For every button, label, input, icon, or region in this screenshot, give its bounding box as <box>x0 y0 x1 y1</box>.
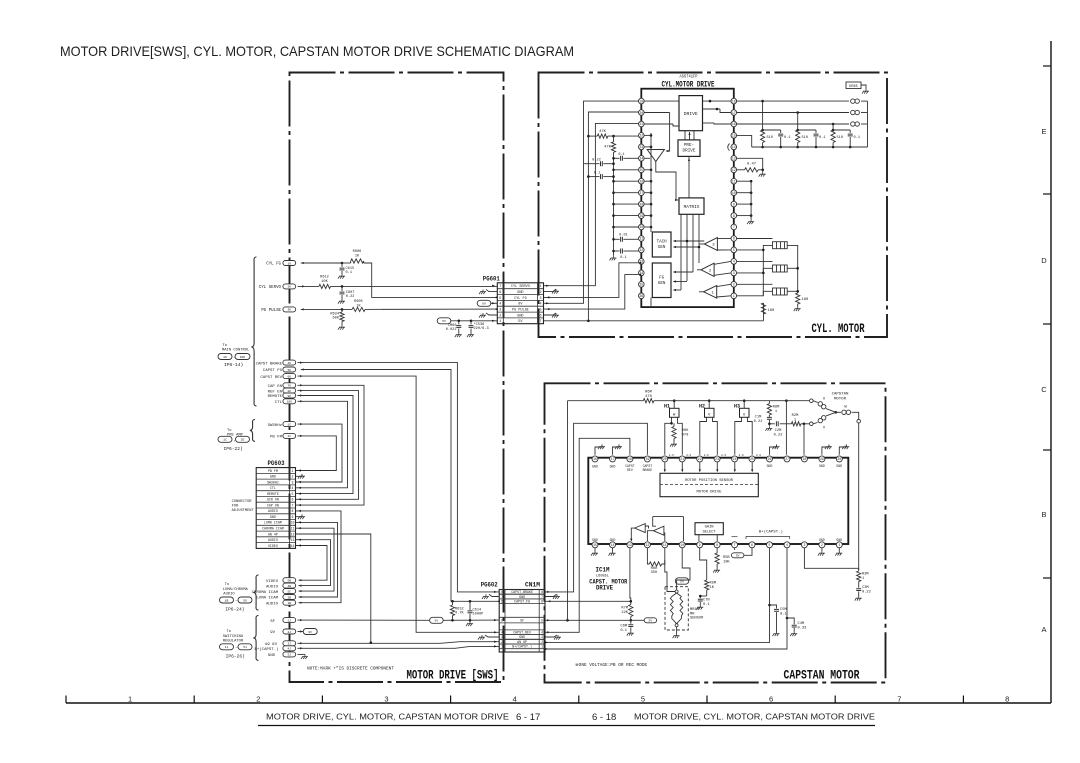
grounds below pins 15,14 <box>591 538 615 556</box>
svg-text:12: 12 <box>291 532 295 536</box>
IC601 right pins 18-1 <box>731 98 737 298</box>
brace main control group <box>251 257 256 406</box>
svg-text:MOTOR DRIVE [SWS]: MOTOR DRIVE [SWS] <box>407 668 499 683</box>
block TACH GEN <box>652 232 671 257</box>
svg-text:PG PULSE: PG PULSE <box>261 309 281 313</box>
svg-text:LUMA ICAM: LUMA ICAM <box>256 597 278 601</box>
svg-text:AS6741FP: AS6741FP <box>680 76 698 80</box>
svg-text:180: 180 <box>802 298 810 302</box>
svg-text:28: 28 <box>802 457 806 461</box>
node AUDIO (1B) <box>266 600 296 606</box>
IC1M top pins 16-30 <box>592 456 842 462</box>
svg-text:AUDIO: AUDIO <box>266 602 279 606</box>
svg-text:0.1: 0.1 <box>703 603 710 607</box>
svg-text:4: 4 <box>733 260 735 264</box>
resistor R5M 1K <box>705 578 717 596</box>
svg-text:CTL: CTL <box>270 486 276 490</box>
zone letters E D C B A <box>1041 127 1047 634</box>
ground CN1M-7 right <box>545 594 560 599</box>
svg-text:GND: GND <box>836 464 842 468</box>
node SF (1J) <box>270 618 296 624</box>
ground PG601 pin6 left <box>479 313 497 318</box>
svg-text:1C: 1C <box>223 438 227 442</box>
wire motor W terminal down to R3M <box>858 423 860 570</box>
node 9V (2J) <box>270 629 296 635</box>
svg-text:0.1: 0.1 <box>618 153 624 157</box>
wire motor node to pin 27 <box>785 401 787 455</box>
wire PG PULSE net with R605 <box>301 300 498 312</box>
label To MAIN CONTROL <box>218 344 250 368</box>
svg-text:2: 2 <box>292 475 294 479</box>
svg-text:GND: GND <box>270 475 276 479</box>
op-amp pair in capstan IC <box>630 517 683 542</box>
svg-text:SF: SF <box>520 618 524 622</box>
node CYL SERVO (2K) <box>259 284 296 290</box>
svg-text:10: 10 <box>732 191 736 195</box>
block DRIVE <box>679 96 703 131</box>
svg-text:2: 2 <box>733 283 735 287</box>
ruler numbers 1-8 <box>128 695 1009 704</box>
svg-text:7: 7 <box>541 595 543 599</box>
svg-text:0.1: 0.1 <box>819 136 825 140</box>
svg-text:28: 28 <box>639 202 643 206</box>
ground above pin 29 <box>822 445 832 455</box>
node B+CAPST (4J) <box>254 646 295 652</box>
capacitor C1M 0.22 <box>754 415 773 431</box>
svg-text:6: 6 <box>501 600 503 604</box>
svg-text:30: 30 <box>837 457 841 461</box>
svg-text:BRAKE: BRAKE <box>643 468 653 472</box>
CYL. MOTOR DRIVE board outline <box>539 73 888 338</box>
svg-text:MOTOR DRIVE, CYL. MOTOR, CAPST: MOTOR DRIVE, CYL. MOTOR, CAPSTAN MOTOR D… <box>634 712 875 722</box>
svg-text:GND: GND <box>592 538 598 542</box>
svg-text:GND: GND <box>592 465 598 469</box>
svg-text:SWITCHING: SWITCHING <box>223 635 244 639</box>
resistor R6H 470 at H1 <box>670 423 688 446</box>
capacitor 0.1 at pin24 <box>612 153 638 161</box>
svg-text:11: 11 <box>291 527 295 531</box>
wire 5V rail from PG601 pin7 along bottom <box>544 320 764 323</box>
9V supply oval at PG601 <box>477 300 497 306</box>
wire LUMA ICAM to PG603-10 <box>296 521 338 598</box>
svg-text:5K: 5K <box>287 369 291 372</box>
resistor 47K vertical in bias bus <box>604 142 615 153</box>
svg-text:CAPST REV: CAPST REV <box>260 376 282 380</box>
svg-text:7: 7 <box>897 695 901 704</box>
capacitor 0.22 <box>584 159 614 167</box>
svg-text:2: 2 <box>256 695 260 704</box>
svg-text:8: 8 <box>716 543 718 547</box>
svg-text:0.01: 0.01 <box>619 234 628 238</box>
capacitor C7N 0.1 <box>696 595 710 610</box>
svg-text:1: 1 <box>501 645 503 649</box>
svg-text:R606: R606 <box>353 250 362 254</box>
svg-text:MOTOR: MOTOR <box>834 397 847 401</box>
svg-text:GND: GND <box>836 538 842 542</box>
wire CTL to PG603-4 <box>296 400 348 489</box>
wire pin 3 to R3M chain <box>804 548 858 568</box>
MR sensor dashed box <box>665 587 688 630</box>
FG coil head no2 (pins 4,3) <box>737 261 799 273</box>
svg-text:R612: R612 <box>320 276 329 280</box>
svg-text:IP6-26): IP6-26) <box>226 654 245 660</box>
node CAPST REV (6K) <box>260 374 295 380</box>
svg-text:PB FM: PB FM <box>270 436 283 440</box>
svg-text:B+(CAPST.): B+(CAPST.) <box>254 647 278 652</box>
wire CYL SERVO net with R612 <box>298 276 498 289</box>
svg-text:510: 510 <box>837 136 843 140</box>
snubber R 510 C 0.1 no3 <box>831 123 860 147</box>
footer page text right <box>592 712 875 724</box>
svg-text:GEN: GEN <box>658 282 666 286</box>
svg-text:0.22: 0.22 <box>862 590 871 594</box>
svg-text:DRIVE: DRIVE <box>684 111 698 117</box>
ground above pin 26 <box>770 445 780 455</box>
svg-text:9V: 9V <box>270 631 275 635</box>
resistor R6H 35K at pin 12 <box>647 548 664 575</box>
svg-text:24: 24 <box>639 157 643 161</box>
ground left bias bus <box>610 256 617 261</box>
svg-text:9V: 9V <box>308 630 312 634</box>
footer page text left <box>266 712 540 724</box>
svg-text:17: 17 <box>732 111 736 115</box>
internal bias bus in IC601 <box>644 133 652 306</box>
svg-text:27: 27 <box>639 191 643 195</box>
wire CAPST REV bundle <box>298 375 500 633</box>
svg-text:VIDEO: VIDEO <box>268 544 278 548</box>
svg-text:26: 26 <box>639 179 643 183</box>
svg-text:8: 8 <box>541 590 543 594</box>
svg-text:18: 18 <box>628 457 632 461</box>
DR65 component box <box>846 82 869 94</box>
svg-text:5C: 5C <box>287 590 291 593</box>
node LUMA ICAM (2B) <box>256 595 295 601</box>
svg-text:B+(CAPST.): B+(CAPST.) <box>759 529 783 534</box>
ground PG602 pin7 left <box>482 594 499 599</box>
svg-text:PRE-: PRE- <box>684 143 694 148</box>
IC1M label <box>589 567 627 592</box>
label CONNECTOR FOR ADJUSTMENT <box>232 500 255 513</box>
svg-text:11: 11 <box>732 179 736 183</box>
node CAPST BRAKE (4K) <box>256 360 296 366</box>
grounds below pins 2,1 <box>818 538 842 556</box>
svg-text:15: 15 <box>593 543 597 547</box>
svg-text:1: 1 <box>539 285 541 289</box>
svg-text:0.1: 0.1 <box>346 271 352 275</box>
svg-text:510: 510 <box>767 136 773 140</box>
svg-text:REMOTE: REMOTE <box>268 395 283 399</box>
svg-text:To: To <box>227 630 232 634</box>
footer underline <box>258 725 875 727</box>
IC1M capstan drive IC body <box>588 458 848 544</box>
svg-text:470: 470 <box>645 395 652 399</box>
svg-text:1K: 1K <box>287 262 291 265</box>
svg-text:CAP ON: CAP ON <box>267 503 279 507</box>
wire REMOTE to PG603-5 <box>296 394 354 494</box>
svg-text:4: 4 <box>513 695 517 704</box>
svg-text:VIDEO: VIDEO <box>266 580 279 584</box>
svg-text:3: 3 <box>541 635 543 639</box>
svg-text:24: 24 <box>733 457 737 461</box>
capacitor C607 0.22 <box>338 286 354 303</box>
svg-text:AUDIO: AUDIO <box>268 538 278 542</box>
svg-text:1: 1 <box>541 645 543 649</box>
svg-text:DRIVE: DRIVE <box>683 148 696 153</box>
svg-text:1B: 1B <box>225 598 229 602</box>
wires bus to pins 25-30 <box>614 170 639 227</box>
svg-text:9: 9 <box>733 202 735 206</box>
block FG GEN <box>652 263 671 298</box>
gain select leads to pins 9,8 <box>699 535 717 541</box>
svg-text:36: 36 <box>639 294 643 298</box>
svg-text:CAPST BRAKE: CAPST BRAKE <box>256 362 283 366</box>
svg-text:SF: SF <box>270 620 275 624</box>
snubber R 510 C 0.1 no1 <box>761 101 791 147</box>
CAPSTAN MOTOR board outline <box>545 383 886 682</box>
wire CN1M-6 CAPST FG from pin 13 <box>545 600 632 603</box>
IC601 part number AS6741FP <box>680 76 698 80</box>
svg-text:20: 20 <box>663 457 667 461</box>
svg-text:9: 9 <box>292 515 294 519</box>
svg-text:LUMA ICAM: LUMA ICAM <box>264 521 282 525</box>
svg-text:19: 19 <box>645 457 649 461</box>
svg-text:180: 180 <box>768 309 776 313</box>
svg-text:To: To <box>223 344 228 348</box>
wire CAPST FG into PG602-6 with R632 C614 taps <box>451 600 500 603</box>
capacitor 0.1 (left) <box>587 171 613 179</box>
svg-text:CAPST FG: CAPST FG <box>263 369 283 373</box>
svg-text:470: 470 <box>682 434 689 438</box>
node REMOTE (9K) <box>268 393 296 399</box>
svg-text:CAPSTAN MOTOR: CAPSTAN MOTOR <box>784 668 860 683</box>
svg-text:0.022: 0.022 <box>446 328 457 332</box>
node PB FM (2C) <box>270 433 296 439</box>
svg-text:32: 32 <box>639 248 643 252</box>
ground at 5J <box>298 654 309 659</box>
block MATRIX <box>679 198 704 214</box>
voltage marks on capstan top pins <box>669 454 762 457</box>
svg-text:#9 6V: #9 6V <box>265 643 278 647</box>
svg-text:5: 5 <box>292 492 294 496</box>
svg-text:R6H: R6H <box>682 429 689 433</box>
hall sensor H1 <box>664 399 682 454</box>
svg-text:3: 3 <box>292 480 294 484</box>
svg-text:CYL. MOTOR: CYL. MOTOR <box>812 321 865 336</box>
label To PRE AMP <box>218 429 250 452</box>
svg-text:0.1: 0.1 <box>780 612 787 616</box>
svg-text:CYL FG: CYL FG <box>266 263 281 267</box>
motor phase wire pin16 <box>737 122 868 126</box>
svg-text:GND: GND <box>268 654 276 658</box>
svg-text:2.6: 2.6 <box>669 454 674 457</box>
ground at PG601 right pin6 <box>544 313 560 318</box>
svg-text:14: 14 <box>611 543 615 547</box>
svg-text:3J: 3J <box>287 643 291 646</box>
comparator 1 <box>704 286 717 299</box>
svg-text:7: 7 <box>499 285 501 289</box>
ground at PG601 right pin2 <box>544 289 560 294</box>
svg-text:4J: 4J <box>287 648 291 651</box>
wire pin 9 to R5M <box>700 548 707 578</box>
svg-text:SENSOR: SENSOR <box>690 617 704 621</box>
svg-text:2.6: 2.6 <box>721 454 726 457</box>
9V supply oval at 2J row <box>298 629 318 635</box>
svg-text:47K: 47K <box>599 130 607 134</box>
resistor 0.47 at pin12 <box>737 163 766 177</box>
node CAPST FG (5K) <box>263 367 296 373</box>
node AUDIO (4B) <box>266 583 296 589</box>
wire MATRIX to PRE-DRIVE <box>688 156 690 198</box>
label CAPSTAN MOTOR small <box>832 393 849 402</box>
capacitor C6M 0.1 <box>620 620 633 635</box>
svg-text:35: 35 <box>639 283 643 287</box>
svg-text:35K: 35K <box>651 571 658 575</box>
svg-text:IP6-14): IP6-14) <box>224 362 243 368</box>
svg-text:6: 6 <box>499 291 501 295</box>
node GND (5J) <box>268 652 296 658</box>
svg-text:220/6.3: 220/6.3 <box>474 326 489 331</box>
svg-text:2: 2 <box>821 543 823 547</box>
svg-text:10K: 10K <box>240 355 246 359</box>
svg-text:1K: 1K <box>223 355 227 359</box>
resistor 47K from 5V to pin22 <box>587 130 638 138</box>
svg-text:25: 25 <box>750 457 754 461</box>
comparator 3 <box>704 238 717 251</box>
svg-text:CYL SERVO: CYL SERVO <box>259 286 282 290</box>
wire CAPST FG bundle <box>301 368 453 601</box>
svg-text:CN1M: CN1M <box>525 582 540 589</box>
svg-text:SELECT: SELECT <box>702 530 716 534</box>
svg-text:0.1: 0.1 <box>784 136 790 140</box>
wire pins 11-8 common with ground <box>737 180 754 224</box>
capacitor C2M 0.22 <box>769 421 791 437</box>
wire CYL FG net with R606 <box>301 250 498 299</box>
svg-text:8: 8 <box>501 590 503 594</box>
svg-text:6: 6 <box>541 600 543 604</box>
svg-text:2J: 2J <box>287 631 291 634</box>
wire PB FM to PG603-1 <box>296 435 337 472</box>
svg-text:2C: 2C <box>287 435 291 438</box>
svg-text:MATRIX: MATRIX <box>684 205 700 210</box>
brace luma chroma group <box>253 575 258 610</box>
svg-text:CYL FG: CYL FG <box>514 297 527 301</box>
svg-text:R8M: R8M <box>773 406 780 410</box>
capacitor CM66 0.022 <box>446 321 462 337</box>
svg-text:19: 19 <box>639 99 643 103</box>
wires hall signals into rotor position sensor block <box>664 462 754 472</box>
svg-text:16: 16 <box>732 122 736 126</box>
svg-text:2.6: 2.6 <box>739 454 744 457</box>
svg-text:CAPST.BRAKE: CAPST.BRAKE <box>511 590 533 594</box>
wire pins19-21 to DRIVE <box>644 101 679 152</box>
connector PG603 body <box>256 468 295 549</box>
resistor R5B 10K at pin 8 <box>713 548 730 573</box>
capacitor C615 0.1 <box>338 263 354 279</box>
svg-text:5: 5 <box>541 618 543 622</box>
svg-text:MOTOR DRIVE, CYL. MOTOR, CAPST: MOTOR DRIVE, CYL. MOTOR, CAPSTAN MOTOR D… <box>266 712 509 722</box>
svg-text:30: 30 <box>639 225 643 229</box>
svg-text:1: 1 <box>733 294 735 298</box>
svg-text:5: 5 <box>733 248 735 252</box>
svg-text:4: 4 <box>786 543 788 547</box>
svg-text:CAPST.FG: CAPST.FG <box>514 600 530 604</box>
svg-text:2: 2 <box>541 640 543 644</box>
resistor R3M 1 <box>857 568 869 581</box>
svg-text:13: 13 <box>291 538 295 542</box>
capacitor 0.1 (pin32) <box>614 249 639 260</box>
svg-text:6: 6 <box>539 314 541 318</box>
svg-text:1: 1 <box>128 695 132 704</box>
svg-text:SW30Hz: SW30Hz <box>267 480 279 484</box>
wire pin 13 down to CAPST.FG net <box>629 548 632 601</box>
svg-text:FG: FG <box>659 277 665 281</box>
capacitor C3M 0.22 <box>855 582 871 601</box>
svg-text:GAIN: GAIN <box>705 526 714 530</box>
FG coil head no1 (pins 6,5) <box>737 239 798 294</box>
wire pin 5 to AN 6P row <box>545 548 771 644</box>
MOTOR DRIVE [SWS] label <box>407 668 499 683</box>
svg-text:23: 23 <box>639 145 643 149</box>
svg-text:B: B <box>1041 510 1046 519</box>
capacitor C4M 0.33 on B+ net <box>787 618 806 636</box>
svg-text:2.6: 2.6 <box>686 454 691 457</box>
svg-text:12: 12 <box>732 168 736 172</box>
resistor 180 right <box>794 291 809 311</box>
svg-text:CAPSTAN: CAPSTAN <box>832 393 849 397</box>
svg-text:5J: 5J <box>243 645 247 649</box>
wire motor node to pin 28 <box>803 424 805 455</box>
left bias bus vertical <box>612 136 615 256</box>
svg-text:6K: 6K <box>287 375 291 378</box>
svg-text:REF EN: REF EN <box>268 390 283 394</box>
capstan motor winding U <box>810 398 838 414</box>
svg-text:68K: 68K <box>333 317 340 321</box>
5V oval above MR sensor <box>675 578 688 590</box>
block PRE-DRIVE <box>678 140 700 157</box>
svg-text:A: A <box>1041 625 1046 634</box>
5V supply oval at PG601 <box>437 318 497 324</box>
svg-text:AUDIO: AUDIO <box>266 585 279 589</box>
ground CN1M-3 right <box>545 635 561 640</box>
svg-text:26: 26 <box>768 457 772 461</box>
svg-text:4.7K: 4.7K <box>455 612 464 616</box>
svg-text:15: 15 <box>732 134 736 138</box>
svg-text:9V: 9V <box>482 302 486 306</box>
wire CAP EN to PG603-7 <box>296 384 365 506</box>
svg-text:10K: 10K <box>723 560 730 564</box>
node CYL FG (1K) <box>266 261 295 267</box>
svg-text:5: 5 <box>769 543 771 547</box>
FG coil head no3 (pins 2,1) <box>737 284 799 296</box>
svg-text:CAP EN: CAP EN <box>268 385 283 389</box>
wire DRIVE outputs to pins 18,17,16 <box>703 100 731 124</box>
svg-text:5V: 5V <box>435 619 439 623</box>
svg-text:1J: 1J <box>225 645 229 649</box>
svg-text:22: 22 <box>698 457 702 461</box>
svg-text:GND: GND <box>819 538 825 542</box>
svg-text:7: 7 <box>733 225 735 229</box>
svg-text:※ONE VOLTAGE:PB OR REC MODE: ※ONE VOLTAGE:PB OR REC MODE <box>575 663 648 668</box>
svg-text:2: 2 <box>499 314 501 318</box>
ground PG601 pin2 left <box>479 290 497 295</box>
IC601 cyl motor drive IC body <box>641 89 734 307</box>
svg-text:6: 6 <box>733 237 735 241</box>
svg-text:GND: GND <box>610 538 616 542</box>
capacitor C5M 0.1 on AN6P net <box>770 605 788 636</box>
svg-text:0.22: 0.22 <box>754 420 763 424</box>
svg-text:SW30Hz: SW30Hz <box>268 424 283 428</box>
svg-text:8: 8 <box>733 214 735 218</box>
